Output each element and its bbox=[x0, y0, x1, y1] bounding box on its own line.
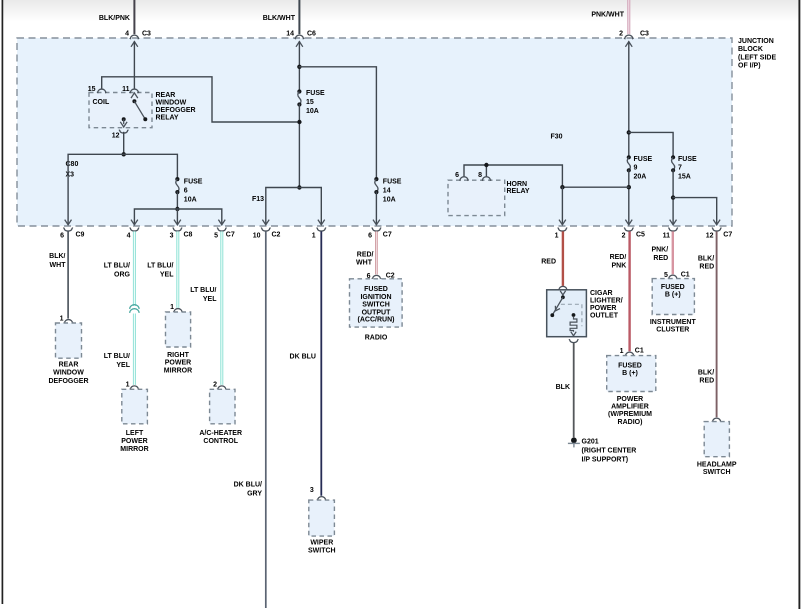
svg-text:MIRROR: MIRROR bbox=[120, 446, 148, 453]
svg-text:RED: RED bbox=[699, 263, 714, 270]
svg-text:HEADLAMP: HEADLAMP bbox=[697, 461, 737, 468]
svg-text:RED/: RED/ bbox=[357, 252, 374, 259]
relay switch contact bbox=[131, 93, 147, 121]
node cigar lighter bottom exit bbox=[569, 339, 578, 343]
node arrow pin11 bbox=[670, 220, 677, 225]
svg-text:FUSE: FUSE bbox=[383, 179, 402, 186]
svg-text:POWER: POWER bbox=[617, 396, 643, 403]
wire fuse9 down to pin2 bbox=[628, 170, 630, 224]
relay pin 12 contact bbox=[120, 117, 127, 127]
svg-text:3: 3 bbox=[310, 487, 314, 494]
node 4 C3 connector bbox=[125, 31, 151, 47]
wire PNK/WHT main vertical bbox=[628, 42, 630, 157]
rear window defogger box bbox=[56, 323, 82, 358]
svg-text:15: 15 bbox=[306, 99, 314, 106]
wire F13 bus bar bbox=[266, 188, 322, 225]
svg-text:WINDOW: WINDOW bbox=[53, 370, 84, 377]
page border left bbox=[1, 0, 3, 604]
wire BLK/WHT to rear window defogger bbox=[49, 231, 68, 318]
node pin 3 wiper switch bbox=[310, 487, 326, 500]
node pin 1 left power mirror bbox=[126, 381, 139, 389]
svg-text:4: 4 bbox=[125, 31, 129, 38]
svg-text:1: 1 bbox=[170, 304, 174, 311]
svg-text:F30: F30 bbox=[551, 134, 563, 141]
wire PNK/WHT top feed bbox=[591, 0, 628, 34]
relay K1 rear window defogger relay box bbox=[89, 93, 152, 128]
svg-text:2: 2 bbox=[213, 381, 217, 388]
svg-text:FUSE: FUSE bbox=[678, 156, 697, 163]
node junction dot at 299,66.8 bbox=[297, 65, 301, 69]
svg-text:FUSED: FUSED bbox=[364, 286, 388, 293]
wire DK BLU to wiper switch bbox=[290, 231, 322, 495]
svg-text:RED: RED bbox=[699, 378, 714, 385]
wire fuse15 to F13 junction bbox=[298, 105, 300, 188]
horn relay pin 8 bbox=[478, 172, 491, 180]
node 14 C6 connector bbox=[286, 31, 316, 47]
svg-text:OUTPUT: OUTPUT bbox=[362, 309, 392, 316]
svg-text:BLK/: BLK/ bbox=[698, 370, 714, 377]
node pin 2 C5 exit bbox=[622, 228, 645, 240]
svg-text:4: 4 bbox=[127, 232, 131, 239]
svg-text:WHT: WHT bbox=[356, 259, 373, 266]
radio fused ignition box bbox=[350, 279, 403, 327]
svg-text:6: 6 bbox=[184, 188, 188, 195]
svg-text:CONTROL: CONTROL bbox=[203, 438, 238, 445]
wire LT BLU/YEL lower to left power mirror bbox=[104, 314, 135, 385]
node arrow pin2 C5 bbox=[625, 220, 632, 225]
svg-text:C3: C3 bbox=[640, 31, 649, 38]
wiper switch box bbox=[309, 500, 335, 536]
svg-text:INSTRUMENT: INSTRUMENT bbox=[650, 319, 697, 326]
cigar lighter switch contact bbox=[550, 291, 565, 317]
instrument cluster label bbox=[650, 319, 697, 334]
svg-text:DK BLU/: DK BLU/ bbox=[234, 482, 262, 489]
svg-text:BLK/WHT: BLK/WHT bbox=[263, 15, 296, 22]
svg-text:SWITCH: SWITCH bbox=[703, 469, 731, 476]
node 2 C3 connector bbox=[619, 31, 649, 47]
svg-text:RELAY: RELAY bbox=[156, 115, 179, 122]
fuse F7 15A bbox=[671, 155, 697, 180]
node pin 5 C1 instrument cluster bbox=[664, 271, 690, 279]
wire BLK/PNK to relay pin 11 bbox=[133, 42, 135, 88]
wire RED/PNK to power amplifier bbox=[610, 231, 630, 351]
wire BLK/RED to headlamp switch bbox=[698, 231, 717, 417]
svg-text:I/P SUPPORT): I/P SUPPORT) bbox=[582, 457, 629, 464]
svg-text:BLK/: BLK/ bbox=[49, 253, 65, 260]
svg-text:WIPER: WIPER bbox=[310, 539, 333, 546]
svg-text:7: 7 bbox=[678, 165, 682, 172]
power amplifier label bbox=[608, 396, 652, 426]
svg-text:REAR: REAR bbox=[59, 362, 79, 369]
junction block (left side of I/P) bbox=[17, 38, 732, 226]
fuse F15 10A bbox=[297, 89, 325, 115]
svg-text:FUSE: FUSE bbox=[634, 156, 653, 163]
wire BLK to ground bbox=[556, 343, 574, 437]
node arrow pin10 bbox=[262, 220, 269, 225]
svg-text:(RIGHT CENTER: (RIGHT CENTER bbox=[582, 448, 637, 455]
svg-text:LEFT: LEFT bbox=[126, 430, 144, 437]
svg-text:20A: 20A bbox=[634, 173, 647, 180]
right power mirror box bbox=[166, 312, 191, 347]
node pin 11 exit bbox=[663, 228, 678, 240]
right power mirror label bbox=[164, 352, 192, 375]
wire RED to cigar lighter bbox=[541, 231, 563, 286]
svg-text:PNK: PNK bbox=[612, 263, 627, 270]
wire pin1 drop bbox=[561, 187, 563, 224]
svg-text:BLOCK: BLOCK bbox=[738, 46, 763, 53]
svg-text:IGNITION: IGNITION bbox=[360, 294, 391, 301]
svg-text:CLUSTER: CLUSTER bbox=[656, 327, 689, 334]
left power mirror label bbox=[120, 430, 148, 453]
wire fuse14 down bbox=[375, 192, 377, 224]
svg-text:RED: RED bbox=[653, 255, 668, 262]
svg-text:11: 11 bbox=[122, 86, 130, 93]
svg-text:1: 1 bbox=[60, 315, 64, 322]
fuse F14 10A bbox=[374, 177, 402, 204]
svg-text:C1: C1 bbox=[635, 348, 644, 355]
power amplifier fused box bbox=[607, 356, 656, 392]
node fuse6 bus junction bbox=[175, 207, 179, 211]
wire BLK/PNK top feed bbox=[99, 0, 135, 34]
svg-text:OUTLET: OUTLET bbox=[590, 313, 619, 320]
C80 X3 label bbox=[66, 161, 79, 179]
node arrow pin4 bbox=[131, 220, 138, 225]
wire relay pin15 feed path bbox=[102, 77, 297, 122]
svg-text:RELAY: RELAY bbox=[507, 188, 530, 195]
svg-text:10A: 10A bbox=[306, 108, 319, 115]
wire LT BLU/ORG upper bbox=[104, 231, 135, 306]
svg-text:YEL: YEL bbox=[160, 271, 174, 278]
svg-text:SWITCH: SWITCH bbox=[308, 547, 336, 554]
wire RED/WHT to radio bbox=[356, 231, 376, 274]
node arrow pin6 C9 bbox=[65, 220, 72, 225]
fuse F9 20A bbox=[627, 155, 653, 180]
wire LT BLU/YEL to a/c heater control bbox=[190, 231, 222, 385]
node headlamp switch entry bbox=[712, 418, 721, 421]
node arrow pin5 C7 bbox=[218, 220, 225, 225]
wire branch to fuse 7 bbox=[629, 132, 673, 157]
node pin 6 C2 radio bbox=[367, 272, 395, 279]
node pin 4 exit bbox=[127, 228, 139, 240]
node cigar lighter entry bbox=[558, 286, 567, 289]
svg-text:15A: 15A bbox=[678, 173, 691, 180]
svg-text:C5: C5 bbox=[636, 232, 645, 239]
svg-text:ORG: ORG bbox=[114, 271, 131, 278]
svg-text:6: 6 bbox=[368, 232, 372, 239]
wire C80 bus bbox=[68, 154, 177, 224]
node pin 1 right power mirror bbox=[170, 304, 183, 312]
wire horn relay feed bar bbox=[464, 165, 629, 187]
svg-text:8: 8 bbox=[478, 172, 482, 179]
svg-text:BLK/: BLK/ bbox=[698, 255, 714, 262]
node arrow pin1 bbox=[559, 220, 566, 225]
ground G201 bbox=[568, 437, 580, 447]
wire BLK/WHT main vertical to fuse 15 bbox=[298, 42, 300, 92]
svg-text:C3: C3 bbox=[142, 31, 151, 38]
node pin 2 a/c heater control bbox=[213, 381, 226, 389]
svg-text:BLK: BLK bbox=[556, 384, 570, 391]
wiper switch label bbox=[308, 539, 336, 554]
svg-text:POWER: POWER bbox=[121, 438, 147, 445]
svg-text:RADIO: RADIO bbox=[365, 334, 388, 341]
svg-text:RADIO): RADIO) bbox=[618, 419, 643, 426]
svg-text:C6: C6 bbox=[307, 31, 316, 38]
node pin 1 C1 power amplifier bbox=[620, 348, 644, 356]
svg-text:RIGHT: RIGHT bbox=[167, 352, 190, 359]
svg-text:WINDOW: WINDOW bbox=[156, 100, 187, 107]
wire horn relay pin8 drop bbox=[485, 165, 487, 177]
wire fuse7 down bbox=[672, 170, 674, 224]
svg-text:(LEFT SIDE: (LEFT SIDE bbox=[738, 54, 776, 61]
svg-text:9: 9 bbox=[634, 165, 638, 172]
svg-text:B (+): B (+) bbox=[622, 370, 638, 377]
svg-text:DK BLU: DK BLU bbox=[290, 354, 316, 361]
instrument cluster fused box bbox=[652, 279, 694, 315]
svg-text:OF I/P): OF I/P) bbox=[738, 63, 761, 70]
node pin 6 C7 exit bbox=[368, 228, 392, 240]
relay pin 15 bbox=[88, 86, 107, 93]
horn relay label bbox=[507, 181, 530, 195]
node pin 1 exit dk blu bbox=[312, 228, 326, 240]
svg-text:1: 1 bbox=[555, 232, 559, 239]
svg-text:AMPLIFIER: AMPLIFIER bbox=[611, 404, 649, 411]
svg-text:C2: C2 bbox=[272, 232, 281, 239]
svg-text:LT BLU/: LT BLU/ bbox=[104, 262, 130, 269]
svg-text:GRY: GRY bbox=[247, 491, 262, 498]
node pin 1 exit red bbox=[555, 228, 567, 240]
node horn relay feed dot bbox=[484, 163, 488, 167]
node relay-feed junction at 299,122 bbox=[297, 120, 301, 124]
svg-text:DEFOGGER: DEFOGGER bbox=[48, 378, 88, 385]
svg-text:C9: C9 bbox=[76, 232, 85, 239]
node C80 junction dot bbox=[122, 152, 126, 156]
svg-text:FUSE: FUSE bbox=[184, 179, 203, 186]
svg-text:1: 1 bbox=[312, 232, 316, 239]
svg-text:LT BLU/: LT BLU/ bbox=[190, 287, 216, 294]
left power mirror box bbox=[122, 389, 148, 424]
relay pin 12 bbox=[112, 130, 129, 140]
svg-text:11: 11 bbox=[663, 232, 671, 239]
node fuse9 junction dot bbox=[627, 185, 631, 189]
svg-text:RED/: RED/ bbox=[610, 254, 627, 261]
svg-text:C1: C1 bbox=[681, 271, 690, 278]
svg-text:FUSED: FUSED bbox=[661, 284, 685, 291]
node arrow pin1 bbox=[318, 220, 325, 225]
node pin 5 C7 exit bbox=[214, 228, 235, 240]
horn relay box bbox=[448, 180, 505, 215]
horn relay pin 6 bbox=[455, 172, 469, 180]
svg-text:POWER: POWER bbox=[590, 305, 616, 312]
wire PNK/RED to instrument cluster bbox=[651, 231, 672, 274]
relay pin 11 bbox=[122, 86, 139, 93]
svg-text:DEFOGGER: DEFOGGER bbox=[156, 107, 196, 114]
node arrow pin12 C7 bbox=[713, 220, 720, 225]
node arrow pin3 C8 bbox=[174, 220, 181, 225]
junction block label bbox=[738, 38, 776, 70]
node junction dot 628,132 bbox=[627, 130, 631, 134]
wire LT BLU/YEL to right power mirror bbox=[147, 231, 178, 307]
svg-text:X3: X3 bbox=[66, 172, 75, 179]
svg-text:(ACC/RUN): (ACC/RUN) bbox=[358, 317, 395, 324]
node F13 junction bbox=[297, 185, 301, 189]
wire fuse6 center drop bbox=[176, 209, 178, 224]
svg-text:15: 15 bbox=[88, 86, 96, 93]
svg-text:WHT: WHT bbox=[50, 262, 67, 269]
svg-text:JUNCTION: JUNCTION bbox=[738, 38, 774, 45]
svg-text:FUSED: FUSED bbox=[618, 363, 642, 370]
svg-text:HORN: HORN bbox=[507, 181, 528, 188]
svg-text:C8: C8 bbox=[184, 232, 193, 239]
node pin 6 C9 exit bbox=[60, 228, 84, 240]
node pin 3 C8 exit bbox=[170, 228, 193, 240]
svg-text:COIL: COIL bbox=[93, 99, 110, 106]
svg-text:2: 2 bbox=[622, 232, 626, 239]
svg-text:C7: C7 bbox=[723, 232, 732, 239]
svg-text:12: 12 bbox=[112, 133, 120, 140]
headlamp switch box bbox=[704, 422, 729, 457]
svg-text:5: 5 bbox=[214, 232, 218, 239]
svg-text:6: 6 bbox=[60, 232, 64, 239]
svg-text:B (+): B (+) bbox=[665, 292, 681, 299]
svg-text:RED: RED bbox=[541, 259, 556, 266]
wire fuse6 to bus bbox=[176, 192, 178, 209]
svg-text:G201: G201 bbox=[582, 439, 599, 446]
rear window defogger label bbox=[48, 362, 88, 385]
instrument cluster fused label bbox=[661, 284, 685, 299]
svg-text:POWER: POWER bbox=[165, 359, 191, 366]
svg-text:CIGAR: CIGAR bbox=[590, 290, 613, 297]
wire C80 junction from relay pin 12 bbox=[123, 133, 125, 155]
cigar lighter element symbol bbox=[561, 304, 582, 336]
relay label bbox=[156, 92, 196, 122]
wire BLK/WHT top feed bbox=[263, 0, 300, 34]
svg-text:F13: F13 bbox=[252, 196, 264, 203]
svg-text:1: 1 bbox=[620, 348, 624, 355]
svg-text:LT BLU/: LT BLU/ bbox=[147, 262, 173, 269]
svg-text:BLK/PNK: BLK/PNK bbox=[99, 15, 130, 22]
svg-text:C7: C7 bbox=[226, 232, 235, 239]
svg-text:YEL: YEL bbox=[116, 362, 130, 369]
svg-text:PNK/: PNK/ bbox=[651, 247, 668, 254]
svg-text:2: 2 bbox=[619, 31, 623, 38]
ground G201 label bbox=[582, 439, 637, 464]
svg-text:LIGHTER/: LIGHTER/ bbox=[590, 298, 623, 305]
node dot at 562,187 bbox=[560, 185, 564, 189]
fuse F6 10A bbox=[175, 177, 203, 204]
node arrow pin6 C7 bbox=[373, 220, 380, 225]
page border right bbox=[798, 0, 800, 609]
node pin 1 rear window defogger bbox=[60, 315, 74, 323]
svg-text:YEL: YEL bbox=[203, 296, 217, 303]
wire fuse6 bus bar bbox=[134, 209, 221, 224]
svg-text:10: 10 bbox=[253, 232, 261, 239]
svg-text:14: 14 bbox=[286, 31, 294, 38]
svg-text:6: 6 bbox=[455, 172, 459, 179]
cigar lighter label bbox=[590, 290, 623, 320]
svg-text:(W/PREMIUM: (W/PREMIUM bbox=[608, 411, 652, 418]
node pin 12 C7 exit bbox=[706, 228, 733, 240]
node pin 10 C2 exit bbox=[253, 228, 281, 240]
svg-text:1: 1 bbox=[126, 381, 130, 388]
a/c heater control box bbox=[210, 389, 235, 424]
svg-text:10A: 10A bbox=[184, 197, 197, 204]
svg-text:PNK/WHT: PNK/WHT bbox=[591, 12, 624, 19]
wire branch to fuse 14 bbox=[299, 67, 376, 179]
svg-text:C7: C7 bbox=[383, 232, 392, 239]
svg-text:FUSE: FUSE bbox=[306, 90, 325, 97]
svg-text:A/C-HEATER: A/C-HEATER bbox=[199, 430, 242, 437]
wire branch to pin12 C7 bbox=[673, 198, 717, 224]
headlamp switch label bbox=[697, 461, 737, 475]
svg-text:12: 12 bbox=[706, 232, 714, 239]
svg-text:14: 14 bbox=[383, 188, 391, 195]
svg-text:LT BLU/: LT BLU/ bbox=[104, 353, 130, 360]
node fuse7 junction dot bbox=[671, 195, 675, 199]
wire DK BLU/GRY long drop bbox=[234, 231, 266, 608]
power amplifier fused label bbox=[618, 363, 642, 378]
svg-text:3: 3 bbox=[170, 232, 174, 239]
svg-text:REAR: REAR bbox=[156, 92, 176, 99]
node splice break bbox=[130, 305, 139, 313]
svg-text:10A: 10A bbox=[383, 197, 396, 204]
svg-text:SWITCH: SWITCH bbox=[362, 302, 390, 309]
svg-text:MIRROR: MIRROR bbox=[164, 367, 192, 374]
radio fused ignition label bbox=[358, 286, 395, 324]
cigar lighter power outlet box bbox=[547, 290, 587, 337]
a/c heater control label bbox=[199, 430, 242, 445]
